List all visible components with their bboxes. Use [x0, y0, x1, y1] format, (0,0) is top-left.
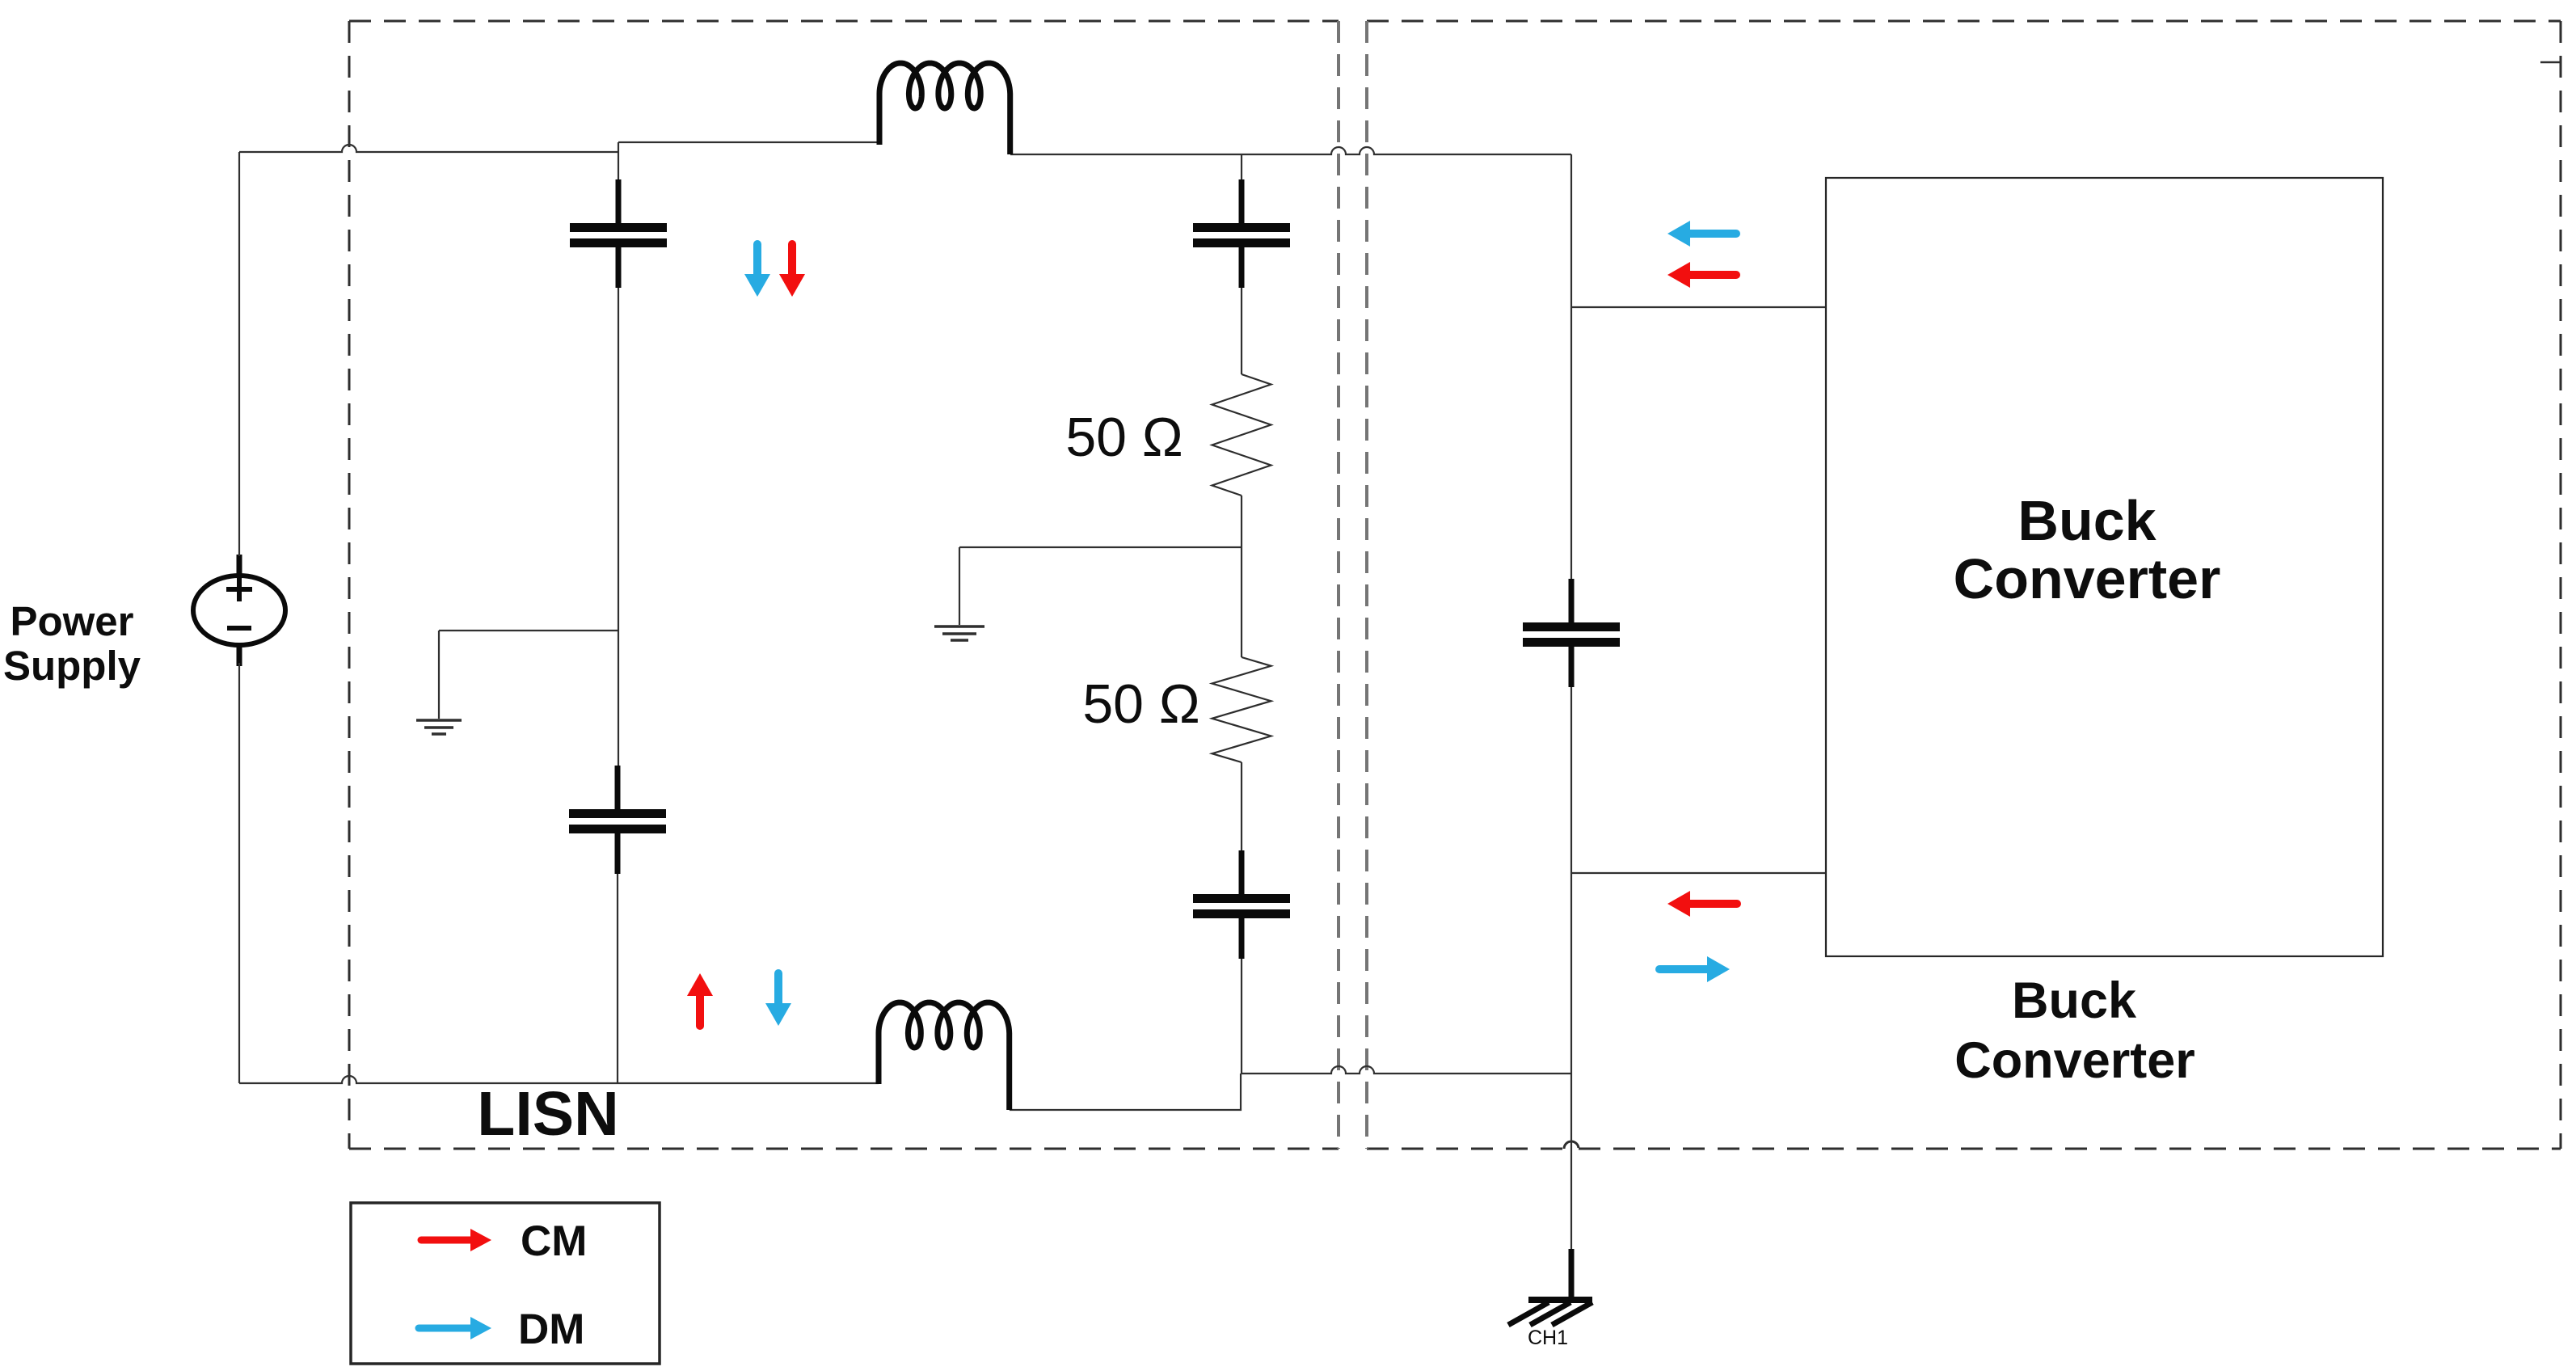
wire: top rail from L1 to buck side (hops over both dashed borders): [1010, 147, 1571, 154]
label 50 Ω (R1): [1065, 407, 1183, 468]
svg-text:Supply: Supply: [3, 643, 141, 689]
label 50 Ω (R2): [1082, 673, 1199, 735]
DM legend arrow (blue): [419, 1317, 491, 1339]
power supply voltage source: [193, 555, 285, 666]
label DM: [518, 1306, 584, 1353]
svg-text:Buck: Buck: [2012, 972, 2137, 1029]
CM arrow (red, up) bottom-left pair: [687, 973, 713, 1026]
wire: branch to left ground: [439, 631, 618, 719]
wire: branch to middle ground: [959, 547, 1242, 625]
capacitor C5 (bus decoupling): [1523, 579, 1620, 687]
resistor R2 50 ohm: [1212, 657, 1271, 762]
CM legend arrow (red): [421, 1229, 491, 1251]
wire: C1 to C3 branch with ground tap: [618, 152, 618, 1083]
inductor L2 (bottom line choke): [879, 1002, 1010, 1110]
label LISN: [477, 1079, 618, 1149]
ground (left earth symbol): [416, 720, 462, 734]
wire: measuring branch C2-R1-R2-C4: [1241, 154, 1242, 1074]
svg-text:Converter: Converter: [1954, 1032, 2195, 1089]
wire: L2 to C4 node jog: [1010, 1074, 1241, 1110]
wire: top rail to inductor L1: [618, 141, 879, 143]
svg-text:CM: CM: [521, 1217, 587, 1265]
CM arrow (red, left) top-right pair: [1667, 262, 1736, 288]
wire: buck converter top input: [1571, 306, 1826, 308]
Buck converter enclosure (dashed box): [1367, 21, 2561, 1149]
svg-text:Converter: Converter: [1954, 547, 2221, 610]
DM arrow (blue, left) top-right pair: [1667, 221, 1736, 247]
svg-text:DM: DM: [518, 1306, 584, 1353]
label Buck Converter (inside block): [1954, 489, 2221, 610]
wire: top rail from supply to C1 node (hop over dashed border): [239, 145, 618, 152]
DM arrow (blue, down) bottom-left pair: [765, 973, 791, 1026]
wire: buck converter bottom input: [1571, 872, 1826, 874]
capacitor C1 (LISN top-left): [570, 179, 667, 288]
DM arrow (blue, right) bottom-right pair: [1659, 956, 1730, 982]
LISN enclosure (dashed box): [349, 21, 1339, 1149]
label CM: [521, 1217, 587, 1265]
svg-text:50 Ω: 50 Ω: [1065, 407, 1183, 468]
inductor L1 (top line choke): [879, 63, 1010, 154]
capacitor C3 (LISN bottom-left): [569, 766, 666, 874]
label Buck Converter (below block): [1954, 972, 2195, 1089]
capacitor C4 (LISN bottom-right): [1193, 850, 1290, 959]
svg-text:LISN: LISN: [477, 1079, 618, 1149]
label CH1: [1528, 1327, 1568, 1349]
ground (middle earth symbol): [934, 626, 984, 640]
wire: vertical bus at measurement node: [1570, 154, 1572, 1261]
svg-text:CH1: CH1: [1528, 1327, 1568, 1349]
CM arrow (red, left) bottom-right pair: [1667, 891, 1737, 917]
svg-text:50 Ω: 50 Ω: [1082, 673, 1199, 735]
buck converter block: [1826, 178, 2383, 956]
CM arrow (red, down) top-left pair: [779, 244, 805, 297]
svg-text:Buck: Buck: [2017, 489, 2156, 552]
ground CH1 (chassis symbol): [1508, 1249, 1592, 1325]
wire: power supply positive lead up: [238, 152, 240, 556]
resistor R1 50 ohm: [1212, 374, 1271, 496]
DM arrow (blue, down) top-left pair: [744, 244, 770, 297]
wire: step up at C1 node: [618, 142, 619, 152]
label Power Supply: [3, 598, 141, 689]
legend box: [351, 1203, 660, 1364]
capacitor C2 (LISN top-right): [1193, 179, 1290, 288]
svg-text:Power: Power: [10, 598, 133, 644]
wire: power supply negative lead down and bottom rail to L2 (hop over dashed border): [239, 663, 879, 1083]
wire: bottom rail to measurement bus (hops over both dashed borders): [1242, 1066, 1571, 1074]
